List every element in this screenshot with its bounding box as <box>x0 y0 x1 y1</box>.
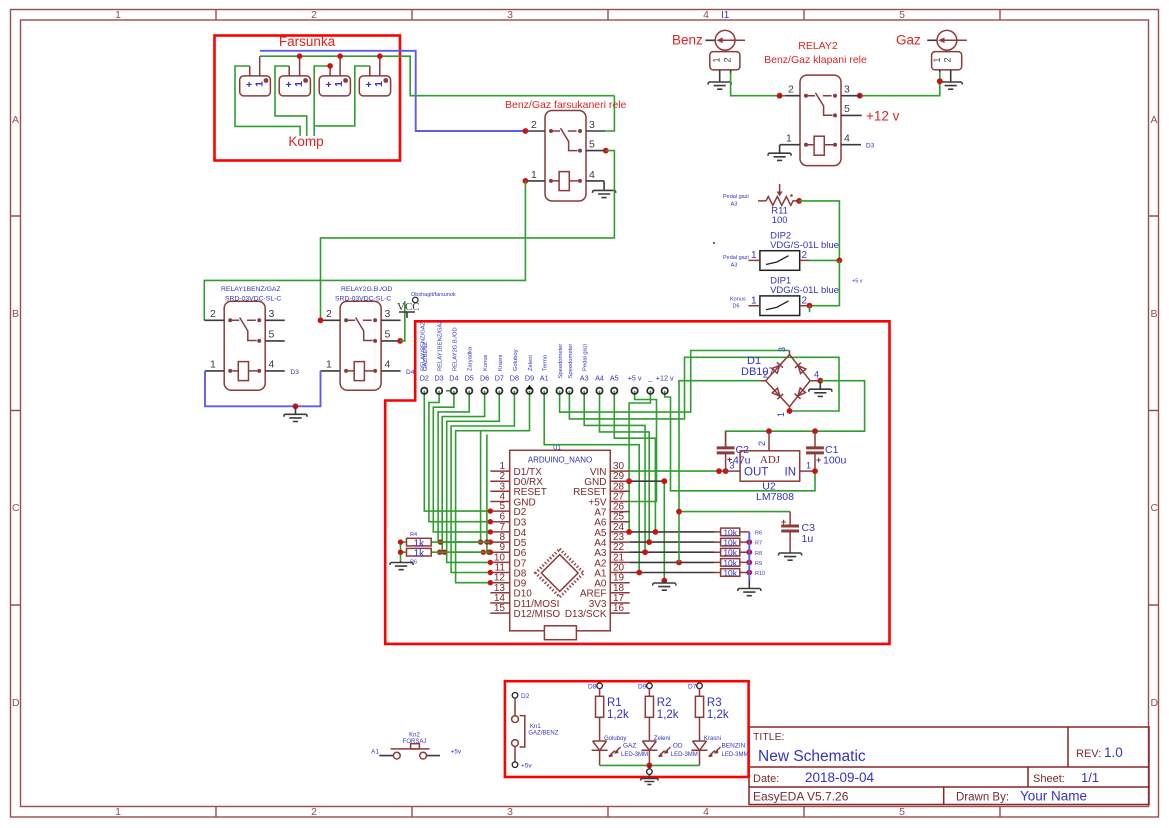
switch Kn1 bottom pin <box>512 762 518 768</box>
svg-text:C: C <box>12 502 20 514</box>
junction dot relay2 pin3 wire <box>857 93 863 99</box>
svg-text:4: 4 <box>703 9 709 21</box>
resistor R3 body <box>695 696 703 717</box>
svg-text:1k: 1k <box>414 549 426 560</box>
svg-text:Your Name: Your Name <box>1020 789 1087 804</box>
wire black A1 row to R10k <box>630 572 714 574</box>
junction dots farsunka bus <box>297 53 303 59</box>
IC U1 left pin numbers <box>494 461 506 614</box>
svg-text:+5v: +5v <box>451 749 462 756</box>
wire green D3 fan <box>429 391 490 522</box>
svg-text:OUT: OUT <box>744 467 768 479</box>
svg-text:1: 1 <box>115 806 121 818</box>
ground at R4 R6 <box>390 561 413 570</box>
wire blue farsunka to relay pin 2 <box>260 51 525 131</box>
ruler row ticks right <box>1149 216 1159 605</box>
svg-text:1: 1 <box>373 81 385 87</box>
relay RELAY2 switch contacts <box>804 94 808 98</box>
wire green relay K1 pin5 to left relays net <box>321 151 615 321</box>
relay RELAY1 body <box>224 301 265 390</box>
relay K1 switch contacts <box>549 129 553 133</box>
wire black A4 row to R7k <box>630 541 714 543</box>
svg-text:D7: D7 <box>688 684 697 691</box>
ground at Gaz connector <box>939 82 962 89</box>
wire green bridge pin4 to cap rail <box>726 381 865 448</box>
potentiometer R11 wiper arrow <box>779 184 781 193</box>
svg-text:+: + <box>286 79 292 91</box>
svg-text:_: _ <box>647 374 653 383</box>
LED bus ground pin <box>648 765 650 769</box>
svg-text:D4: D4 <box>406 369 415 376</box>
svg-text:Goluboy: Goluboy <box>604 736 626 742</box>
resistor bank 10k R8 <box>714 551 749 553</box>
ground at bridge pin4 <box>809 381 832 397</box>
ground below pin29 net <box>653 581 676 591</box>
svg-text:16: 16 <box>613 603 625 614</box>
svg-text:A3: A3 <box>731 202 738 208</box>
svg-text:A3: A3 <box>731 263 738 269</box>
svg-text:D9: D9 <box>525 374 534 383</box>
svg-text:R3: R3 <box>707 697 722 709</box>
wire green lamp1 tail <box>235 66 300 136</box>
junction dot Gaz pin wire <box>937 78 943 84</box>
svg-text:2: 2 <box>757 441 767 446</box>
svg-text:3: 3 <box>589 119 595 131</box>
svg-text:RELAY1BENZ/GAZ: RELAY1BENZ/GAZ <box>221 286 281 293</box>
resistor bank 10k R10 <box>714 572 749 574</box>
IC U1 right pin numbers <box>613 461 625 614</box>
svg-text:100u: 100u <box>823 455 847 467</box>
ruler column ticks top <box>216 10 1000 21</box>
switch DIP1 body <box>760 296 800 316</box>
svg-text:IN: IN <box>785 467 797 479</box>
relay RELAY1 pin numbers <box>210 308 275 371</box>
wire green D5 fan <box>438 391 490 542</box>
svg-text:A4: A4 <box>595 374 604 383</box>
svg-text:2: 2 <box>788 84 794 96</box>
svg-text:RELAY/BENZ/GAZ: RELAY/BENZ/GAZ <box>421 321 427 371</box>
ruler row ticks left <box>11 216 21 605</box>
resistor bank 10k R6k <box>714 531 749 533</box>
svg-text:+5 v: +5 v <box>628 374 642 383</box>
svg-text:EasyEDA V5.7.26: EasyEDA V5.7.26 <box>753 790 849 804</box>
svg-text:R10: R10 <box>755 571 765 577</box>
svg-text:1: 1 <box>712 57 722 62</box>
relay K1 farsukaneri body <box>545 111 586 202</box>
svg-text:R2: R2 <box>657 697 672 709</box>
svg-text:D9: D9 <box>638 684 647 691</box>
junction dot R11 right <box>796 198 802 204</box>
lamp L1 body <box>240 76 271 96</box>
wire green Speedometer2 to bridge pin1 <box>569 357 839 419</box>
junction dot C1 bottom <box>812 468 818 474</box>
wire black A3 row to R8k <box>630 551 714 553</box>
current source I1 Benz <box>705 39 715 41</box>
IC U1 usb connector glyph <box>544 626 576 640</box>
relay K1 coil <box>559 172 569 191</box>
junction dot bridge pin1 <box>787 408 793 414</box>
svg-text:Konus: Konus <box>730 297 746 303</box>
bridge rectifier D1 diamond <box>766 355 810 407</box>
junction dot A1 row <box>636 570 642 576</box>
svg-text:R9: R9 <box>755 561 762 567</box>
svg-text:RELAY1BENZ/GAZ: RELAY1BENZ/GAZ <box>438 320 444 371</box>
LED LED2 <box>641 741 657 750</box>
wire green GND29 down to ground <box>663 481 665 580</box>
junction dot Benz wire <box>777 93 783 99</box>
regulator U2 pin1 stub <box>800 470 815 472</box>
junction dots cap rail <box>766 428 772 434</box>
junction dot bridge pin4 <box>817 378 823 384</box>
lamp L2 pins <box>289 56 299 76</box>
ground at resistor bank <box>738 580 761 596</box>
lamp L3 pins <box>330 56 340 76</box>
svg-text:BENZIN: BENZIN <box>722 743 746 750</box>
svg-text:5: 5 <box>589 139 595 151</box>
resistor bank 10k R7 <box>714 541 749 543</box>
wire black A2 row to R9k <box>630 561 714 563</box>
svg-text:10k: 10k <box>723 558 737 568</box>
wire green bridge pin2 net down to A2 <box>679 381 760 563</box>
resistor bank 10k R9 <box>714 561 749 563</box>
wire green Benz to relay2 pin2 <box>731 73 785 96</box>
bridge D1 diode glyph top-left <box>772 362 783 373</box>
relay RELAY2 coil <box>814 136 824 155</box>
LED LED1 <box>592 741 608 750</box>
svg-text:1,2k: 1,2k <box>707 709 729 721</box>
svg-text:C: C <box>1151 502 1159 514</box>
svg-text:RELAY2G.B./OD: RELAY2G.B./OD <box>341 286 392 293</box>
svg-text:1: 1 <box>751 250 757 261</box>
svg-text:5: 5 <box>385 329 391 341</box>
svg-text:+: + <box>326 79 332 91</box>
switch DIP2 lever <box>766 256 789 265</box>
LED3 bottom lead <box>699 750 701 765</box>
svg-text:10k: 10k <box>723 568 737 578</box>
relay RELAY1 switch contacts <box>228 318 232 322</box>
switch DIP1 lever <box>766 301 789 310</box>
junction dot A3 row <box>642 549 648 555</box>
relay RELAY1 coil <box>238 362 248 381</box>
pin name labels top pin row <box>420 374 674 383</box>
switch Kn1 top pin <box>512 693 518 699</box>
bridge D1 diode glyph top-right <box>795 363 806 374</box>
svg-text:Speedometer: Speedometer <box>558 344 564 379</box>
relay RELAY2 body <box>800 75 841 166</box>
svg-text:Kn1: Kn1 <box>530 724 541 730</box>
junction dot A4 row <box>646 539 652 545</box>
IC U1 right pin stubs <box>610 471 629 613</box>
svg-text:Zeleni: Zeleni <box>528 355 534 371</box>
svg-text:D12/MISO: D12/MISO <box>514 609 561 620</box>
svg-text:2: 2 <box>326 308 332 320</box>
svg-text:3: 3 <box>385 308 391 320</box>
resistor R1 body <box>596 696 604 717</box>
ruler row letters left <box>12 114 20 709</box>
svg-text:Goluboy: Goluboy <box>513 349 519 371</box>
lamp L1 pins <box>250 56 260 76</box>
svg-text:Zaryadka: Zaryadka <box>468 346 474 371</box>
svg-text:2: 2 <box>802 295 808 306</box>
black marker above D9 pin <box>526 385 532 390</box>
svg-text:D2: D2 <box>420 374 429 383</box>
svg-text:ADJ: ADJ <box>760 454 781 466</box>
svg-text:Gaz: Gaz <box>896 33 921 48</box>
red highlight box arduino section <box>385 321 889 644</box>
current source I2 Gaz <box>927 39 937 41</box>
stray dot artifact <box>713 242 715 244</box>
wire black A5 row to R6k <box>630 531 714 533</box>
wire green +12v fan to regulator IN <box>665 391 815 491</box>
wire green C3 tap <box>679 511 790 513</box>
junction dot relay K1 pin5 <box>603 148 609 154</box>
wire green A3 fan to pin22 <box>584 391 645 552</box>
svg-text:GAZ/BENZ: GAZ/BENZ <box>528 731 558 737</box>
wire blue relay coils to ground <box>205 371 321 406</box>
svg-text:3: 3 <box>730 461 735 471</box>
svg-text:Pedal gazi: Pedal gazi <box>723 255 749 261</box>
svg-text:5: 5 <box>269 329 275 341</box>
svg-text:3: 3 <box>507 806 513 818</box>
svg-text:+12 v: +12 v <box>656 374 674 383</box>
svg-text:100: 100 <box>772 215 788 226</box>
junction dots D6 row extras <box>437 550 442 555</box>
svg-text:Benz/Gaz farsukaneri rele: Benz/Gaz farsukaneri rele <box>505 99 627 111</box>
connector P2 Gaz body <box>932 52 962 70</box>
svg-text:4: 4 <box>385 359 391 371</box>
svg-text:A5: A5 <box>610 374 619 383</box>
junction dot LED bus <box>647 763 653 769</box>
svg-text:Pedal gazi: Pedal gazi <box>583 344 589 371</box>
svg-text:D13/SCK: D13/SCK <box>565 609 607 620</box>
red highlight box LED section <box>505 681 749 777</box>
svg-text:1: 1 <box>333 81 345 87</box>
svg-text:3: 3 <box>269 308 275 320</box>
switch DIP2 pin leads <box>749 259 810 261</box>
relay RELAY2G coil <box>354 362 364 381</box>
wire green gnd fan <box>629 391 650 532</box>
switch Kn1 body <box>514 698 516 762</box>
svg-text:D3: D3 <box>866 143 875 150</box>
junction dots OUT line <box>716 468 722 474</box>
svg-text:1: 1 <box>210 359 216 371</box>
svg-text:+: + <box>246 79 252 91</box>
svg-text:LED-3MM: LED-3MM <box>722 752 749 758</box>
svg-text:1: 1 <box>326 359 332 371</box>
junction dot DIP2 pin2 rail <box>837 258 843 264</box>
pin circles top row <box>421 388 668 394</box>
svg-text:D7: D7 <box>495 374 504 383</box>
svg-text:Kn2: Kn2 <box>409 733 420 739</box>
wire green farsunka top bus <box>260 56 614 95</box>
regulator U2 body <box>740 451 800 481</box>
connector P1 pins <box>720 70 731 82</box>
svg-text:15: 15 <box>494 603 506 614</box>
svg-text:Pedal gazi: Pedal gazi <box>723 194 749 200</box>
wire green +5v fan to pin27 <box>630 391 657 502</box>
IC U1 left pin names <box>514 467 561 620</box>
svg-text:A3: A3 <box>580 374 589 383</box>
switch DIP2 body <box>760 251 800 271</box>
junction dot DIP1 pin2 <box>807 303 813 309</box>
junction dot lamp3 pin <box>327 63 333 69</box>
svg-text:D6: D6 <box>480 374 489 383</box>
junction dot relay K1 pin1 <box>523 178 529 184</box>
svg-text:+5 v: +5 v <box>852 279 863 285</box>
pin circle D9 branch <box>647 683 653 689</box>
svg-text:Termo: Termo <box>543 355 549 371</box>
resistor R1 leads <box>599 689 601 741</box>
wire blue resistor bank tie <box>748 532 750 580</box>
svg-text:4: 4 <box>814 370 819 380</box>
relay RELAY2G pin lines <box>321 320 401 371</box>
svg-text:4: 4 <box>844 133 850 145</box>
svg-text:1: 1 <box>293 81 305 87</box>
wire green +5v rail down to DIP1 <box>810 260 840 305</box>
capacitor C2 <box>725 431 727 471</box>
svg-text:LM7808: LM7808 <box>756 491 794 503</box>
IC U1 right pin names <box>565 467 607 620</box>
svg-text:D6: D6 <box>732 304 739 310</box>
junction dot relay2G pin5 <box>397 338 403 344</box>
ruler row letters right <box>1151 114 1159 709</box>
svg-text:Date:: Date: <box>753 773 779 785</box>
junction dots D5 row extras <box>438 539 443 544</box>
ground below LED box <box>641 775 659 785</box>
svg-text:A1: A1 <box>371 749 379 756</box>
svg-text:D3: D3 <box>434 374 443 383</box>
svg-text:1: 1 <box>531 169 537 181</box>
svg-text:D8: D8 <box>588 684 597 691</box>
wire green lamp4 tail <box>315 66 370 126</box>
svg-text:2: 2 <box>943 57 953 62</box>
junction dot A2 row <box>676 560 682 566</box>
svg-text:+12 v: +12 v <box>866 109 900 124</box>
svg-text:Drawn By:: Drawn By: <box>956 792 1009 804</box>
ground at C3 <box>779 553 802 560</box>
svg-text:Konus: Konus <box>483 354 489 371</box>
svg-text:D4: D4 <box>449 374 458 383</box>
svg-text:A: A <box>1151 114 1158 126</box>
wire green relay K1 pin1 down-left to relay1 pin2 <box>204 181 525 320</box>
regulator U2 pin3 stub <box>726 470 741 472</box>
wire green Speedometer1 to bridge pin3 <box>560 351 790 413</box>
svg-text:D2: D2 <box>514 507 527 518</box>
svg-text:10k: 10k <box>723 548 737 558</box>
svg-text:Benz: Benz <box>672 33 703 48</box>
svg-text:3: 3 <box>507 9 513 21</box>
green stub at D4 pin <box>446 390 451 392</box>
svg-text:Speedometer: Speedometer <box>568 344 574 379</box>
svg-text:4: 4 <box>269 359 275 371</box>
junction dots A5 row <box>626 529 632 535</box>
svg-text:1u: 1u <box>802 533 814 545</box>
svg-text:10k: 10k <box>723 538 737 548</box>
svg-text:R6: R6 <box>755 531 762 537</box>
junction dot gnd vertical end <box>661 578 667 584</box>
svg-text:Obshagit/farsunok: Obshagit/farsunok <box>411 292 456 298</box>
svg-text:D: D <box>1151 697 1159 709</box>
svg-text:3: 3 <box>777 347 787 352</box>
relay K1 pin numbers <box>531 119 595 181</box>
wire green extra fan to D6 row <box>486 435 488 553</box>
svg-text:3: 3 <box>844 84 850 96</box>
svg-text:2: 2 <box>311 806 317 818</box>
wire green D4 fan <box>433 391 490 532</box>
svg-text:D5: D5 <box>465 374 474 383</box>
svg-text:1,2k: 1,2k <box>607 709 629 721</box>
svg-text:Krasni: Krasni <box>498 355 504 371</box>
LED LED3 <box>692 741 708 750</box>
svg-text:GAZ: GAZ <box>623 743 636 750</box>
resistor R6 body <box>407 548 432 556</box>
bridge D1 pin stubs <box>760 351 820 412</box>
wire black GND29 row <box>630 480 665 482</box>
capacitor C3 <box>789 512 791 553</box>
capacitor C1 <box>814 431 816 471</box>
ruler column ticks bottom <box>216 807 1000 818</box>
wire green D9 fan <box>456 391 530 583</box>
wire green DIP2 pin2 <box>810 259 840 261</box>
svg-text:5: 5 <box>844 103 850 115</box>
svg-text:+: + <box>816 455 821 465</box>
relay K1 pin lines <box>527 131 606 181</box>
svg-text:A: A <box>12 114 19 126</box>
svg-text:2: 2 <box>763 370 768 380</box>
resistor R4 body <box>407 538 432 546</box>
wire green lamp2 tail <box>275 66 307 136</box>
svg-text:LED-3MM: LED-3MM <box>621 752 648 758</box>
wire green D6 fan <box>442 391 490 552</box>
svg-text:4: 4 <box>703 806 709 818</box>
junction dot blue ground wire <box>293 403 299 409</box>
wire green A4 fan to pin23 <box>600 391 650 542</box>
svg-text:Benz/Gaz klapani rele: Benz/Gaz klapani rele <box>764 54 867 66</box>
svg-text:OD: OD <box>673 743 683 750</box>
pin circle D8 branch <box>597 683 603 689</box>
svg-text:47u: 47u <box>733 455 751 467</box>
svg-text:2018-09-04: 2018-09-04 <box>805 770 875 785</box>
ground at RELAY2 pin 1 <box>768 145 791 161</box>
connector P1 Benz body <box>710 52 740 70</box>
svg-text:D3: D3 <box>291 369 300 376</box>
junction dots arduino left pin rows <box>488 508 493 513</box>
junction dot relay2G pin2 <box>318 317 324 323</box>
svg-text:RELAY2G.B./OD: RELAY2G.B./OD <box>452 327 458 371</box>
junction dots R4 R6 left <box>398 539 403 544</box>
svg-text:1.0: 1.0 <box>1104 745 1123 760</box>
wire green VIN to regulator OUT <box>630 470 726 472</box>
junction dot C3 tap <box>676 509 682 515</box>
svg-text:2: 2 <box>531 119 537 131</box>
ruler column numbers bottom <box>115 806 905 818</box>
wire green A5 fan to pin24 <box>614 391 655 532</box>
bridge D1 diode glyph bottom-left <box>772 388 783 399</box>
svg-text:4: 4 <box>589 169 595 181</box>
svg-text:1: 1 <box>806 461 811 471</box>
wire green D8 fan <box>451 391 514 573</box>
svg-text:B: B <box>12 308 19 320</box>
Farsunka red highlight box <box>215 36 401 161</box>
svg-text:RELAY2: RELAY2 <box>798 40 838 52</box>
svg-text:I1: I1 <box>721 10 730 21</box>
svg-text:Farsunka: Farsunka <box>279 34 336 49</box>
svg-text:R8: R8 <box>755 551 762 557</box>
relay RELAY2G switch contacts <box>344 318 348 322</box>
wire green relay K1 pin3 up to farsunka bus <box>605 96 614 131</box>
svg-text:ARDUINO_NANO: ARDUINO_NANO <box>528 456 592 465</box>
relay RELAY1 pin lines <box>204 320 284 371</box>
